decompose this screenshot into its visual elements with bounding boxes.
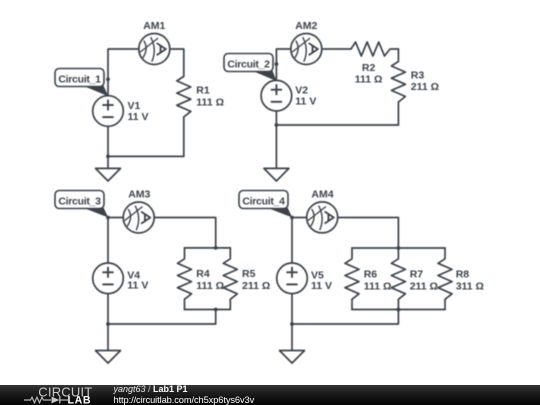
ammeter AM1 bbox=[139, 34, 170, 65]
ground circuit 2 bbox=[264, 125, 289, 181]
svg-text:11 V: 11 V bbox=[127, 280, 148, 292]
ammeter AM3 bbox=[123, 202, 154, 233]
wire top circuit 3 (through AM3 to parallel bank) bbox=[108, 218, 216, 248]
CircuitLab logo bbox=[0, 385, 110, 405]
resistor R7 branch bbox=[391, 248, 405, 310]
svg-text:R6: R6 bbox=[364, 268, 378, 280]
wire top bar parallel bank circuit 4 bbox=[352, 247, 445, 249]
wire + resistor R1 right rail circuit 1 bbox=[177, 49, 191, 156]
net label Circuit_2 bbox=[224, 54, 276, 82]
svg-text:LAB: LAB bbox=[68, 395, 92, 405]
voltage source V2 bbox=[261, 80, 292, 111]
svg-text:211 Ω: 211 Ω bbox=[242, 280, 270, 292]
svg-text:AM1: AM1 bbox=[143, 20, 165, 32]
svg-text:311 Ω: 311 Ω bbox=[456, 280, 484, 292]
svg-text:211 Ω: 211 Ω bbox=[411, 81, 439, 93]
ammeter AM2 bbox=[291, 34, 322, 65]
resistor R4 branch bbox=[178, 248, 192, 310]
svg-text:R1: R1 bbox=[196, 85, 210, 97]
svg-text:111 Ω: 111 Ω bbox=[196, 97, 224, 109]
junction node circuit 3 bank top bbox=[214, 246, 218, 250]
junction node circuit 3 bank bottom bbox=[214, 308, 218, 312]
net label Circuit_1 bbox=[55, 69, 108, 97]
wire top bar parallel bank circuit 3 bbox=[185, 247, 231, 249]
net label Circuit_4 bbox=[239, 191, 292, 218]
voltage source V4 bbox=[93, 263, 124, 294]
svg-text:Circuit_1: Circuit_1 bbox=[58, 73, 101, 85]
wire bottom circuit 2 bbox=[276, 124, 398, 126]
svg-text:11 V: 11 V bbox=[128, 111, 149, 123]
node: circuit 4 left rail bbox=[291, 218, 293, 325]
voltage source V1 bbox=[93, 96, 124, 127]
svg-text:R2: R2 bbox=[362, 62, 376, 74]
node: circuit 3 left rail bbox=[107, 218, 109, 325]
wire bottom bar parallel bank circuit 3 bbox=[185, 309, 231, 311]
junction node circuit 2 ground bbox=[275, 123, 279, 127]
resistor R2 + wire to corner circuit 2 bbox=[351, 42, 398, 56]
node: circuit 2 left rail bbox=[276, 49, 351, 125]
ground circuit 4 bbox=[280, 324, 305, 363]
svg-text:Circuit_4: Circuit_4 bbox=[242, 195, 285, 207]
junction node circuit 2 upper bbox=[275, 62, 279, 66]
wire bottom circuit 1 bbox=[108, 155, 184, 157]
svg-text:AM3: AM3 bbox=[128, 188, 150, 200]
svg-text:AM4: AM4 bbox=[311, 188, 333, 200]
svg-text:R4: R4 bbox=[196, 268, 210, 280]
junction node circuit 1 ground bbox=[106, 155, 110, 159]
svg-text:111 Ω: 111 Ω bbox=[355, 74, 383, 86]
voltage source V5 bbox=[277, 263, 308, 294]
svg-text:Circuit_2: Circuit_2 bbox=[227, 58, 270, 70]
node: circuit 1 left rail (V1 to top wire) bbox=[108, 49, 184, 156]
junction node circuit 3 left bbox=[106, 216, 110, 220]
svg-text:211 Ω: 211 Ω bbox=[410, 280, 438, 292]
wire return circuit 3 bbox=[108, 310, 216, 325]
resistor R6 branch bbox=[345, 248, 359, 310]
svg-text:R8: R8 bbox=[456, 268, 470, 280]
resistor R8 branch bbox=[438, 248, 452, 310]
junction node circuit 4 bank top bbox=[397, 246, 401, 250]
footer credit text bbox=[114, 384, 188, 394]
svg-text:R5: R5 bbox=[242, 268, 256, 280]
net label Circuit_3 bbox=[55, 191, 108, 218]
wire + resistor R3 right rail circuit 2 bbox=[391, 49, 405, 125]
svg-text:R3: R3 bbox=[411, 69, 425, 81]
ground circuit 1 bbox=[96, 156, 121, 181]
junction node circuit 4 bank bottom bbox=[397, 308, 401, 312]
resistor R5 branch bbox=[223, 248, 237, 310]
svg-text:Circuit_3: Circuit_3 bbox=[58, 195, 101, 207]
junction node circuit 4 ground bbox=[290, 322, 294, 326]
wire return circuit 4 bbox=[292, 310, 398, 325]
svg-text:R7: R7 bbox=[410, 268, 424, 280]
svg-text:11 V: 11 V bbox=[311, 280, 332, 292]
junction node circuit 4 left bbox=[290, 216, 294, 220]
svg-text:AM2: AM2 bbox=[295, 20, 317, 32]
wire bottom bar parallel bank circuit 4 bbox=[352, 309, 445, 311]
wire top circuit 4 (through AM4 to parallel bank) bbox=[292, 218, 398, 249]
ammeter AM4 bbox=[307, 202, 338, 233]
svg-text:111 Ω: 111 Ω bbox=[196, 280, 224, 292]
junction node circuit 3 ground bbox=[106, 322, 110, 326]
svg-text:111 Ω: 111 Ω bbox=[364, 280, 392, 292]
ground circuit 3 bbox=[96, 324, 121, 363]
junction node circuit 1 upper bbox=[106, 77, 110, 81]
svg-text:11 V: 11 V bbox=[295, 95, 316, 107]
